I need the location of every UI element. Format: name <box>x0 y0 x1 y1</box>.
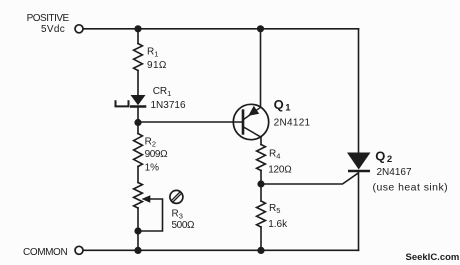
svg-text:1N3716: 1N3716 <box>151 100 186 111</box>
wire Q1 to R4 <box>260 137 262 145</box>
SCR Q2 <box>347 153 371 172</box>
wire CR1 to node B <box>137 107 139 123</box>
svg-text:SeekIC.com: SeekIC.com <box>406 252 460 263</box>
resistor R4 <box>257 145 266 171</box>
resistor R5 <box>257 201 266 227</box>
wire left branch top <box>137 29 139 44</box>
terminal COMMON <box>75 246 83 254</box>
node top R1 <box>134 25 141 32</box>
svg-text:CR1: CR1 <box>153 86 172 98</box>
svg-text:120Ω: 120Ω <box>268 164 292 175</box>
diode CR1 tunnel <box>116 95 147 107</box>
svg-text:Q1: Q1 <box>274 97 292 114</box>
wire R3 wiper loop <box>139 199 163 231</box>
node R3 wiper return <box>134 227 141 234</box>
wire right side anode drop <box>358 29 360 153</box>
terminal POSITIVE <box>75 25 83 33</box>
svg-text:1.6k: 1.6k <box>268 219 288 230</box>
wire right side cathode drop <box>358 171 360 250</box>
svg-text:(use heat sink): (use heat sink) <box>373 182 449 194</box>
wire R2 to R3 <box>137 167 139 183</box>
resistor R1 <box>134 44 143 71</box>
wire bottom rail <box>84 249 359 251</box>
node C gate <box>257 180 264 187</box>
wire node C to R5 <box>260 184 262 201</box>
wire base of Q1 <box>138 121 242 123</box>
svg-text:909Ω: 909Ω <box>145 149 168 160</box>
svg-text:1%: 1% <box>145 162 160 173</box>
node bottom middle <box>257 247 264 254</box>
R3 wiper arrow <box>142 195 151 203</box>
svg-text:R3: R3 <box>172 209 183 221</box>
svg-text:2N4121: 2N4121 <box>274 117 311 128</box>
resistor R2 <box>134 134 143 167</box>
R3 screw-adjust symbol <box>170 190 183 203</box>
node bottom left <box>134 247 141 254</box>
svg-text:5Vdc: 5Vdc <box>41 24 65 35</box>
node top Q1 <box>257 25 264 32</box>
wire R1 to CR1 <box>137 71 139 96</box>
svg-text:R4: R4 <box>269 148 280 160</box>
svg-text:500Ω: 500Ω <box>172 220 195 231</box>
svg-text:2N4167: 2N4167 <box>377 167 412 178</box>
transistor Q1 <box>233 104 268 139</box>
wire collector drop Q1 <box>260 29 262 107</box>
wire gate of Q2 <box>261 174 358 185</box>
wire R3 to bottom rail <box>137 208 139 250</box>
svg-text:91Ω: 91Ω <box>147 60 167 71</box>
potentiometer R3 <box>134 183 143 209</box>
svg-text:R5: R5 <box>269 203 280 215</box>
node B diode/base <box>134 119 141 126</box>
wire R5 to bottom rail <box>260 227 262 250</box>
wire R4 to node C <box>260 171 262 185</box>
wire top rail <box>84 28 359 30</box>
svg-text:COMMON: COMMON <box>23 247 67 258</box>
svg-text:Q2: Q2 <box>375 148 392 165</box>
wire node B to R2 <box>137 123 139 134</box>
svg-text:R1: R1 <box>147 47 158 59</box>
svg-text:R2: R2 <box>145 136 156 148</box>
svg-text:POSITIVE: POSITIVE <box>27 13 70 24</box>
